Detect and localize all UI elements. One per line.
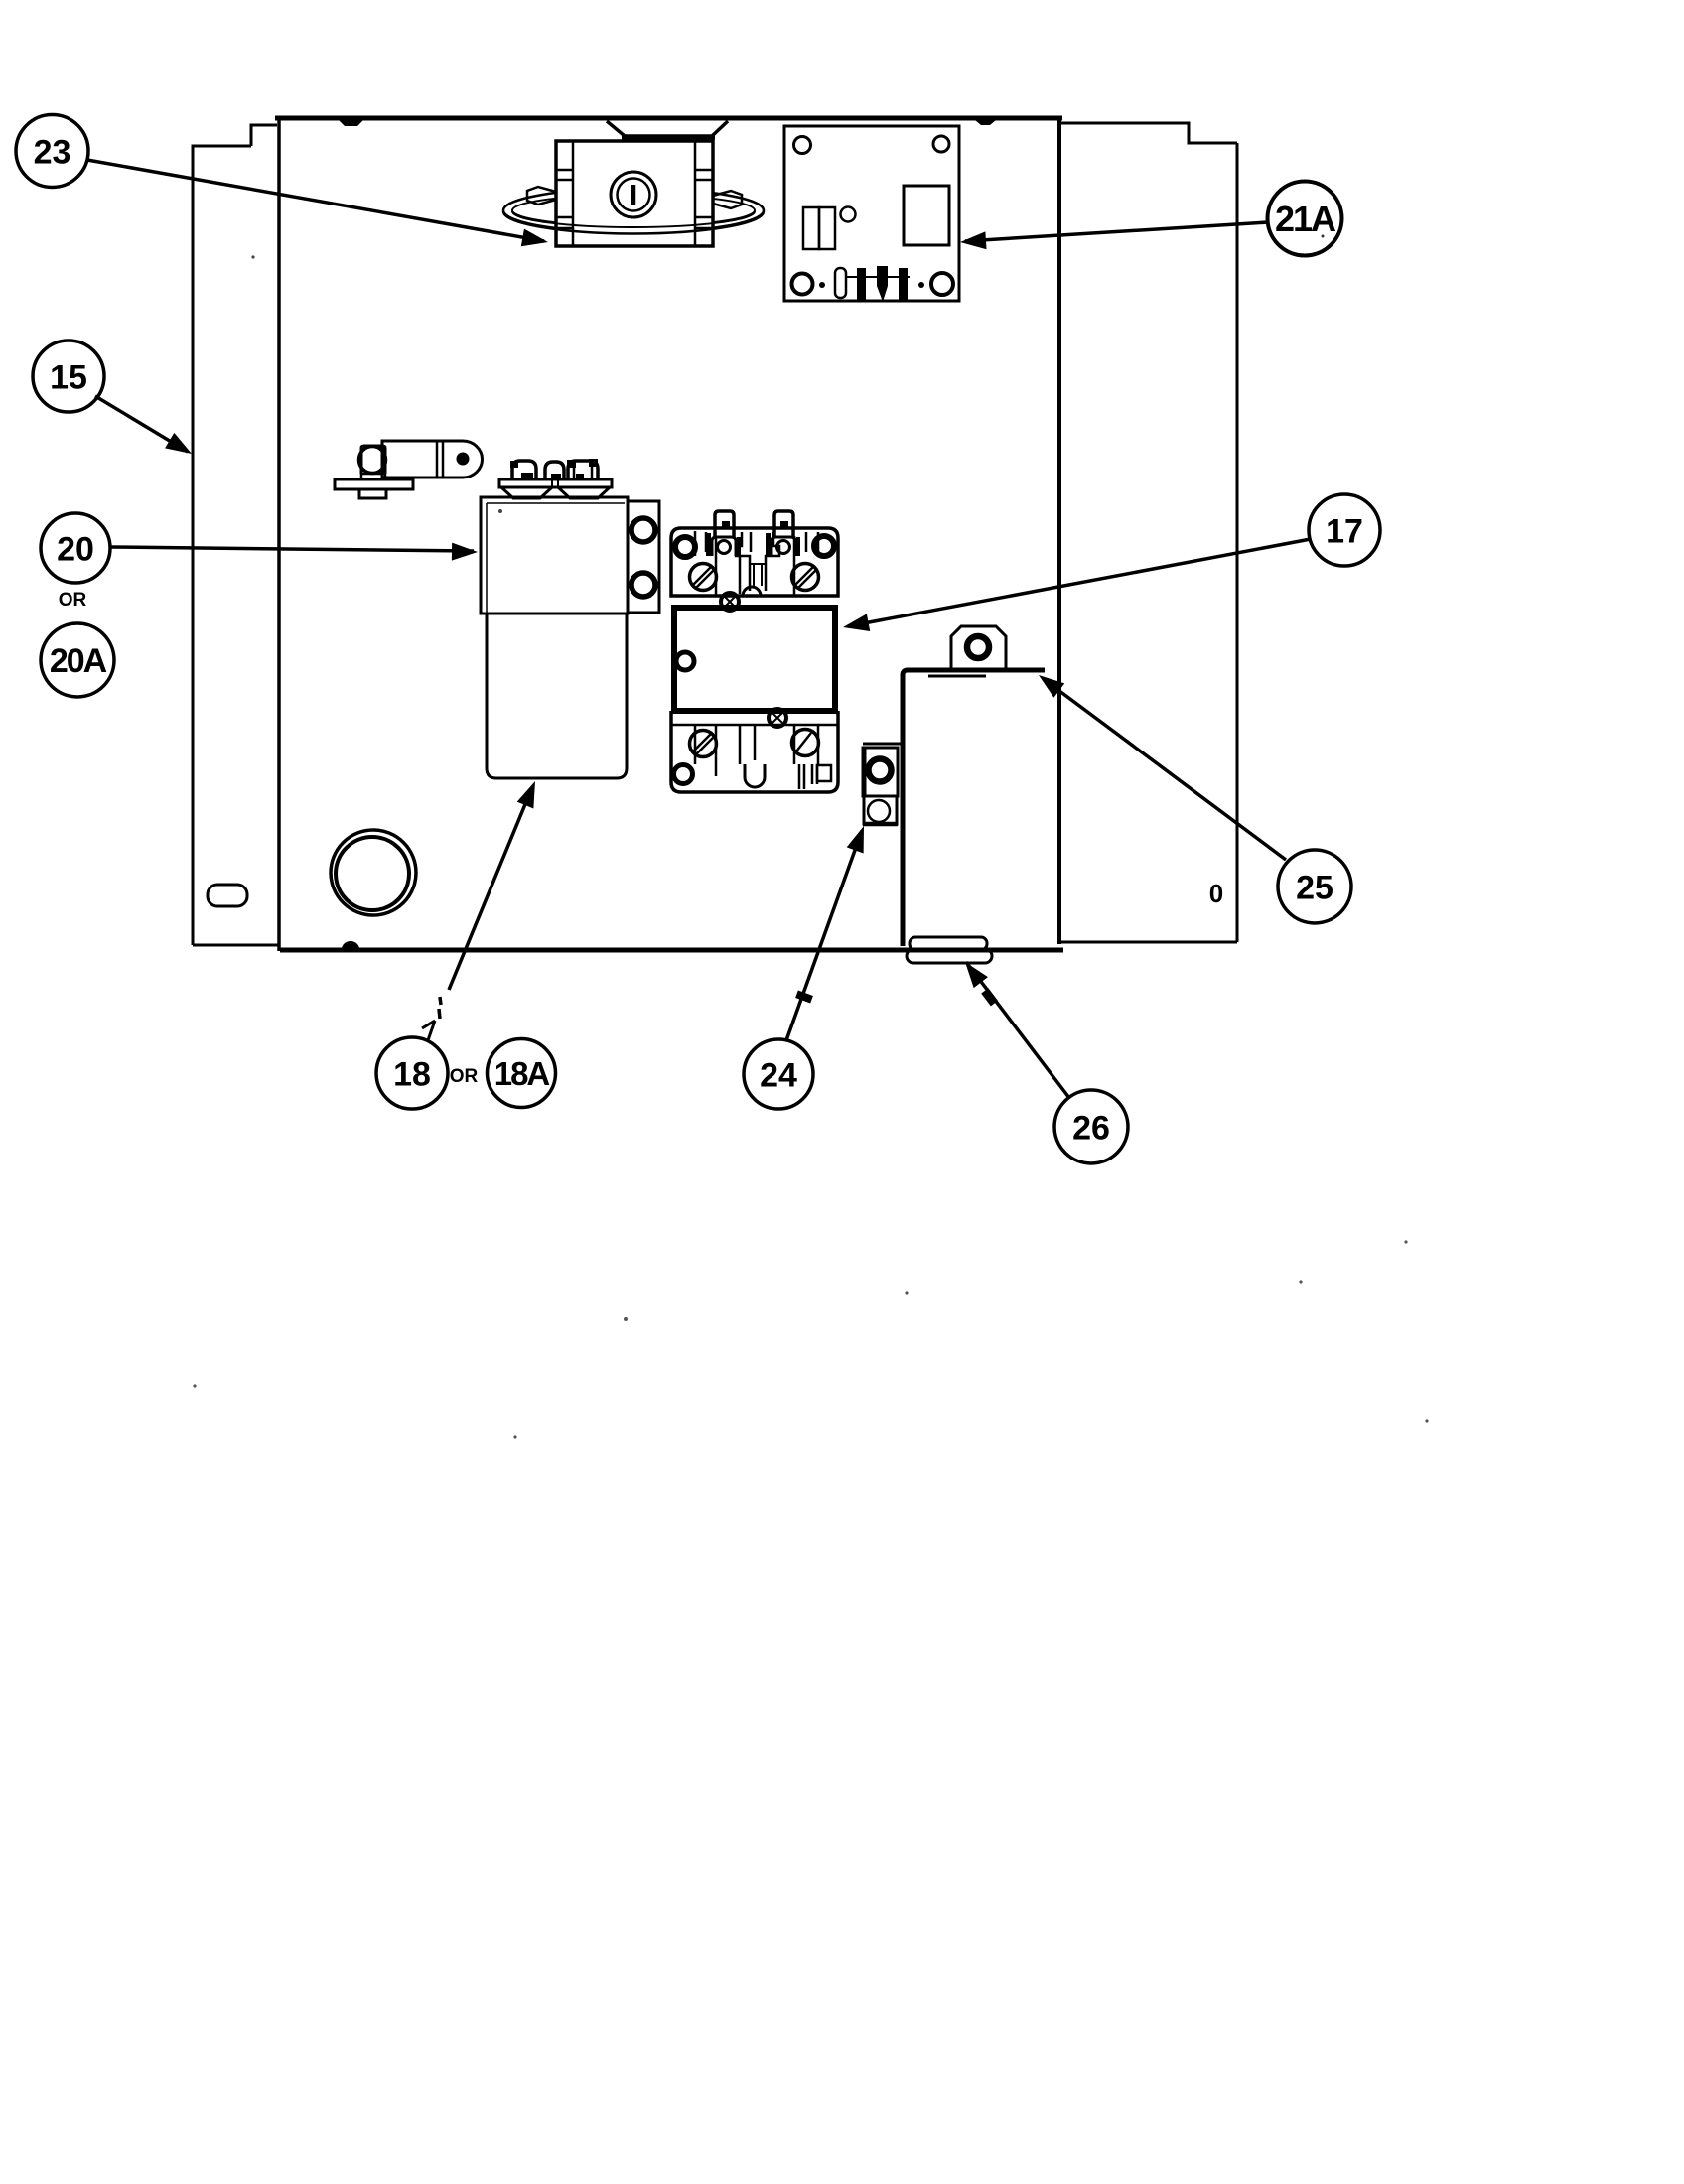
chassis right flange top — [1060, 123, 1237, 143]
leader 18 — [449, 792, 530, 990]
svg-text:OR: OR — [59, 590, 87, 611]
lock 23 ring bottom arcs over body — [503, 211, 764, 234]
lock 23 : wire ring oval — [503, 189, 764, 233]
leader 25 — [1044, 679, 1286, 860]
chassis right flange bottom — [1059, 941, 1237, 944]
cover mounting tab — [951, 626, 1006, 669]
callout circle 15 — [33, 341, 104, 412]
callout circle 24 — [744, 1039, 813, 1109]
callout circle 18 — [376, 1037, 448, 1109]
plate 21A bottom-left bolt — [792, 274, 813, 295]
lock 23 left wire end — [527, 187, 556, 205]
svg-text:20A: 20A — [50, 642, 107, 680]
chassis left flange left edge — [193, 146, 251, 945]
contactor main body — [674, 608, 835, 711]
capacitor top plate — [499, 479, 612, 487]
chassis right flange right edge — [1236, 143, 1239, 942]
svg-text:15: 15 — [50, 359, 87, 397]
capacitor terminals — [510, 459, 598, 479]
cover 25 — [903, 626, 1045, 963]
callout circle 21A — [1268, 182, 1342, 256]
chassis top recess trapezoid — [607, 121, 728, 136]
chassis left flange step — [251, 125, 277, 146]
svg-text:18: 18 — [393, 1056, 431, 1094]
chassis face left edge — [277, 120, 281, 951]
plate 21A terminal strip — [835, 268, 846, 298]
cover foot — [910, 937, 987, 950]
capacitor side bracket — [628, 501, 659, 613]
chassis bottom bump — [342, 941, 359, 949]
callout circle 20 — [41, 513, 110, 583]
leader 24 — [786, 831, 862, 1040]
chassis hole lower left — [331, 830, 416, 915]
relay bracket 24 — [863, 744, 902, 824]
bracket above capacitor — [335, 441, 483, 498]
svg-text:0: 0 — [1209, 879, 1223, 908]
svg-text:24: 24 — [760, 1057, 797, 1095]
leader 23 — [87, 160, 544, 241]
chassis face right edge — [1057, 118, 1061, 944]
contactor top block — [671, 528, 838, 596]
leader 20 — [110, 547, 474, 551]
plate 21A relay rectangle — [904, 186, 949, 245]
svg-text:OR: OR — [450, 1066, 479, 1087]
chassis slot on left flange — [208, 885, 247, 906]
svg-text:25: 25 — [1296, 870, 1333, 907]
svg-text:20: 20 — [57, 531, 94, 569]
callout circle 25 — [1278, 850, 1351, 923]
chassis left flange bottom — [193, 944, 280, 947]
plate 21A twin bars — [803, 207, 819, 249]
contactor 17 — [671, 511, 838, 792]
plate 21A board — [784, 126, 959, 301]
chassis notch left on top edge — [339, 120, 363, 126]
lock 23 keyhole — [611, 172, 656, 217]
svg-text:23: 23 — [34, 134, 71, 172]
lock 23 right wire end — [713, 191, 742, 208]
chassis notch right on top edge — [975, 120, 996, 125]
contactor lower band — [671, 711, 838, 725]
contactor bottom block — [671, 711, 838, 792]
leader 21A — [965, 222, 1268, 241]
lock 23 body — [556, 141, 713, 246]
svg-text:26: 26 — [1072, 1110, 1110, 1148]
callout circle 17 — [1309, 494, 1380, 566]
callout circle 18A — [488, 1039, 556, 1108]
leader 15 — [95, 396, 188, 452]
contactor central step — [736, 532, 779, 591]
scan specks — [251, 255, 254, 258]
plate 21A top-left hole — [794, 137, 811, 154]
capacitor plate trapezoids — [501, 487, 552, 498]
chassis face bottom edge — [280, 948, 1063, 953]
callout circle 26 — [1054, 1090, 1128, 1163]
chassis panel top edge — [275, 116, 1062, 121]
capacitor body lower — [487, 614, 627, 778]
capacitor body upper — [481, 497, 628, 614]
contactor mid band — [671, 596, 838, 608]
contactor top quick-connect tabs — [715, 511, 734, 537]
callout circle 20A — [41, 623, 114, 697]
plate 21A bottom-right bolt — [931, 273, 953, 295]
cover body — [903, 670, 1045, 946]
leader 17 — [848, 539, 1311, 626]
contactor top screws — [690, 564, 717, 591]
callout circle 23 — [16, 115, 88, 188]
plate 21A small hole — [841, 207, 856, 222]
svg-text:21A: 21A — [1275, 199, 1336, 239]
plate 21A small dots — [819, 282, 825, 288]
svg-text:17: 17 — [1326, 513, 1363, 551]
plate 21A top-right hole — [933, 136, 949, 152]
leader 26 — [966, 962, 1069, 1098]
svg-text:18A: 18A — [494, 1055, 550, 1092]
